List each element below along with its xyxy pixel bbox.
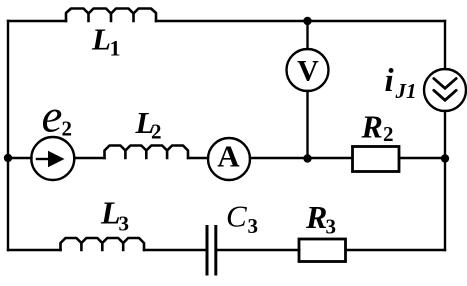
svg-text:V: V	[297, 55, 319, 88]
svg-text:A: A	[217, 139, 240, 174]
svg-text:R: R	[305, 199, 327, 235]
wire between R2 and right edge	[399, 157, 445, 159]
ammeter A	[208, 138, 250, 180]
svg-text:R: R	[361, 109, 383, 145]
svg-text:L: L	[100, 195, 121, 231]
wire voltmeter lower lead	[306, 91, 308, 158]
capacitor C3	[207, 227, 216, 275]
wire between e2 and L2	[74, 157, 104, 159]
resistor R2	[353, 147, 400, 172]
inductor L1	[66, 9, 156, 22]
inductor L2	[105, 146, 189, 159]
wire bottom between R3 and C3	[218, 249, 300, 251]
wire bottom-right segment	[346, 249, 446, 251]
inductor L3	[61, 238, 145, 250]
resistor R3	[299, 239, 346, 262]
svg-text:3: 3	[326, 215, 337, 239]
svg-text:1: 1	[110, 36, 121, 61]
svg-text:J1: J1	[395, 79, 417, 103]
wire between ammeter and R2	[250, 157, 353, 159]
wire top-left segment	[8, 20, 66, 22]
svg-text:3: 3	[248, 214, 259, 238]
svg-text:C: C	[226, 199, 247, 234]
svg-text:i: i	[385, 63, 395, 99]
node middle junction	[303, 154, 311, 162]
svg-text:2: 2	[383, 122, 394, 146]
wire left edge	[7, 21, 9, 250]
wire bottom between C3 and L3	[144, 249, 206, 251]
wire bottom-left segment	[8, 249, 61, 251]
svg-text:3: 3	[119, 212, 130, 236]
wire right edge upper	[444, 21, 446, 69]
svg-text:e: e	[42, 91, 63, 143]
node right junction	[441, 154, 449, 162]
svg-text:2: 2	[151, 120, 162, 144]
svg-text:L: L	[91, 22, 111, 57]
wire top-right segment	[156, 20, 445, 22]
svg-text:2: 2	[62, 117, 73, 141]
node top junction	[303, 17, 311, 25]
wire right edge lower	[444, 158, 446, 250]
wire middle-left stub	[8, 157, 32, 159]
voltmeter V	[287, 49, 329, 91]
node left junction	[4, 154, 12, 162]
wire between L2 and ammeter	[188, 157, 208, 159]
emf source e2	[31, 137, 74, 180]
wire right edge middle	[444, 111, 446, 158]
wire voltmeter upper lead	[306, 21, 308, 49]
current source i_J1	[424, 69, 466, 111]
